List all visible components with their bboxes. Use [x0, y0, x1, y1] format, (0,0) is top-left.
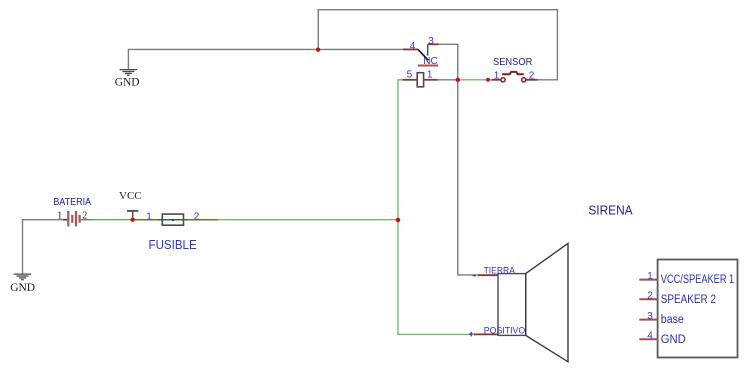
- svg-text:3: 3: [428, 36, 434, 47]
- connector box: [658, 260, 738, 358]
- relay NC rose underline: [418, 65, 438, 67]
- node: junction sensor pin1: [486, 78, 490, 82]
- relay NC pin 3 stub: [428, 43, 439, 45]
- power: VCC symbol: [127, 211, 138, 219]
- svg-text:SENSOR: SENSOR: [493, 57, 532, 68]
- battery plates: [68, 211, 79, 226]
- node: junction coil-sensor: [456, 78, 460, 82]
- svg-text:GND: GND: [661, 334, 686, 346]
- switch SENSOR actuator bar: [502, 72, 524, 74]
- relay coil pin 1 stub: [424, 79, 438, 81]
- speaker horn: [526, 243, 568, 361]
- svg-text:GND: GND: [115, 77, 140, 89]
- wire: green junction to sensor pin1: [458, 79, 492, 81]
- connector pin 3 stub: [639, 319, 657, 321]
- switch SENSOR pin 1 stub: [492, 79, 501, 81]
- svg-text:SPEAKER 2: SPEAKER 2: [661, 294, 716, 306]
- speaker POSITIVO pin plus mark: [469, 332, 474, 337]
- svg-text:BATERIA: BATERIA: [53, 197, 91, 208]
- svg-text:1: 1: [146, 211, 152, 222]
- svg-text:1: 1: [647, 271, 653, 282]
- wire: green vertical coil-5 down to POSITIVO: [398, 80, 471, 335]
- svg-text:4: 4: [647, 331, 653, 342]
- svg-text:4: 4: [410, 41, 416, 52]
- relay coil pin 5 stub: [403, 79, 418, 81]
- speaker body rectangle: [498, 274, 526, 336]
- node: junction green cross: [396, 218, 401, 223]
- connector pin 1 stub: [639, 279, 657, 281]
- switch SENSOR pin 2 stub: [526, 79, 538, 81]
- svg-text:3: 3: [647, 311, 653, 322]
- switch SENSOR contact circle 2: [522, 78, 526, 82]
- svg-text:SIRENA: SIRENA: [588, 202, 632, 217]
- svg-text:VCC/SPEAKER 1: VCC/SPEAKER 1: [661, 274, 734, 286]
- svg-text:2: 2: [529, 71, 535, 82]
- switch SENSOR contact circle 1: [501, 78, 505, 82]
- battery pin 1 stub: [63, 219, 67, 221]
- wire: green battery to VCC junction: [92, 219, 134, 221]
- wire: green fuse to main junction: [218, 219, 398, 221]
- svg-text:TIERRA: TIERRA: [484, 265, 516, 276]
- relay NC switch arm: [418, 49, 428, 60]
- relay NC pin 4 stub: [403, 48, 418, 50]
- svg-text:1: 1: [57, 211, 62, 222]
- connector pin 4 stub: [639, 338, 657, 340]
- svg-text:FUSIBLE: FUSIBLE: [149, 238, 197, 252]
- node: junction top: [316, 48, 320, 52]
- svg-text:5: 5: [407, 69, 413, 80]
- svg-text:GND: GND: [10, 282, 35, 294]
- speaker POSITIVO pin stub: [474, 333, 498, 335]
- fuse FUSIBLE body: [162, 214, 183, 225]
- node: junction VCC: [131, 218, 135, 222]
- wire: relay pin3 to long vertical down to speaker TIERRA: [438, 44, 478, 275]
- wire: olive segment VCC to fuse area: [133, 219, 218, 221]
- fuse center dot: [172, 219, 174, 221]
- svg-text:2: 2: [647, 291, 653, 302]
- speaker TIERRA pin stub: [478, 274, 498, 276]
- connector pin 2 stub: [639, 298, 657, 300]
- wire: dark green through fuse: [158, 219, 188, 221]
- ground: top-left GND symbol: [120, 70, 138, 76]
- relay NC pin 3 vertical: [427, 44, 429, 55]
- wire: battery left to GND: [23, 220, 64, 274]
- battery pin 2 stub: [81, 219, 92, 221]
- svg-text:2: 2: [194, 211, 200, 222]
- ground: bottom-left GND symbol: [14, 274, 32, 280]
- svg-text:1: 1: [494, 71, 500, 82]
- svg-text:2: 2: [82, 211, 87, 222]
- svg-text:1: 1: [427, 69, 433, 80]
- svg-text:base: base: [661, 314, 684, 326]
- wire: coil pin1 to junction: [437, 79, 458, 81]
- svg-text:VCC: VCC: [119, 190, 142, 202]
- svg-text:POSITIVO: POSITIVO: [484, 326, 525, 337]
- wire: top horizontal GND-to-relay net: [128, 49, 403, 69]
- relay coil body: [417, 73, 423, 87]
- speaker TIERRA pin minus mark: [473, 275, 476, 277]
- wire: loop up from junction over to right side: [318, 10, 557, 80]
